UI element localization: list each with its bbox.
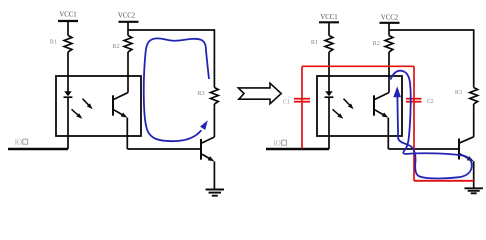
red added wire: top rail: [302, 65, 414, 67]
wire R3 to Q2 collector right: [473, 104, 475, 137]
resistor R3 (left): [197, 88, 218, 105]
resistor R3 (right): [455, 88, 478, 105]
wire R2 to collector: [127, 52, 129, 93]
LED anode wire: [67, 52, 69, 92]
svg-text:IO: IO: [15, 139, 22, 146]
LED cathode wire: [67, 97, 69, 149]
node IO (left): [8, 139, 68, 149]
wire VCC1 to R1 right: [328, 22, 330, 35]
power VCC2 (left): [118, 13, 139, 22]
light arrow 1: [344, 99, 351, 107]
svg-text:IO: IO: [274, 140, 281, 147]
node IO (right): [266, 140, 329, 149]
wire Q1 emitter down: [213, 161, 215, 189]
LED anode wire: [328, 52, 330, 92]
svg-text:R2: R2: [373, 40, 380, 47]
svg-text:VCC1: VCC1: [59, 12, 76, 19]
resistor R1 (left): [50, 36, 72, 53]
power VCC2 (right): [380, 15, 400, 23]
phototransistor emitter: [114, 110, 124, 116]
wire VCC2 down right: [388, 23, 390, 36]
resistor R2 (right): [373, 36, 393, 53]
current loop (left, blue): [144, 38, 209, 141]
light arrow 2: [333, 109, 341, 116]
optocoupler box: [317, 76, 402, 136]
svg-text:VCC2: VCC2: [118, 13, 136, 20]
wire Q2 emitter down right: [473, 161, 475, 188]
light arrow 1: [83, 99, 90, 107]
capacitor C2: [406, 99, 434, 105]
red added wire: right branch: [413, 66, 415, 181]
svg-text:R2: R2: [112, 43, 119, 50]
svg-text:C1: C1: [283, 99, 290, 105]
wire VCC2 down: [127, 22, 129, 36]
wire emitter to Q1 base: [126, 118, 128, 149]
LED cathode wire: [328, 97, 330, 149]
power VCC1 (left): [58, 12, 78, 22]
resistor R1 (right): [311, 36, 333, 53]
phototransistor emitter: [375, 110, 385, 116]
svg-text:VCC1: VCC1: [320, 14, 337, 21]
wire VCC2 branch to R3: [128, 29, 214, 31]
current loop (right, blue): [391, 71, 472, 179]
transformation arrow: [238, 83, 281, 104]
ground (right): [464, 187, 483, 189]
svg-text:R1: R1: [50, 39, 57, 46]
wire emitter to Q2 base right: [387, 118, 389, 149]
wire R2 to collector right: [388, 52, 390, 93]
resistor R2 (left): [112, 36, 132, 53]
svg-text:C2: C2: [427, 99, 434, 105]
red added wire: left branch: [301, 66, 303, 148]
transistor Q1 (left): [200, 139, 202, 160]
red added wire: bottom rail: [414, 180, 474, 182]
ground (left): [206, 189, 225, 191]
transistor Q2 (right): [458, 139, 460, 160]
svg-text:R3: R3: [455, 89, 462, 96]
LED diode: [64, 91, 72, 96]
LED diode: [325, 91, 333, 96]
light arrow 2: [72, 109, 80, 116]
svg-text:VCC2: VCC2: [381, 15, 399, 22]
power VCC1 (right): [319, 14, 339, 22]
wire VCC1 to R1: [67, 21, 69, 36]
wire VCC2 branch to R3 right: [389, 29, 474, 31]
optocoupler box: [56, 76, 141, 136]
phototransistor base bar: [112, 95, 114, 115]
svg-text:R3: R3: [197, 90, 204, 97]
phototransistor base bar: [373, 95, 375, 115]
capacitor C1: [283, 99, 310, 106]
phototransistor collector: [375, 93, 389, 100]
phototransistor collector: [114, 93, 128, 100]
wire R3 to Q1 collector: [213, 104, 215, 137]
svg-text:R1: R1: [311, 39, 318, 46]
